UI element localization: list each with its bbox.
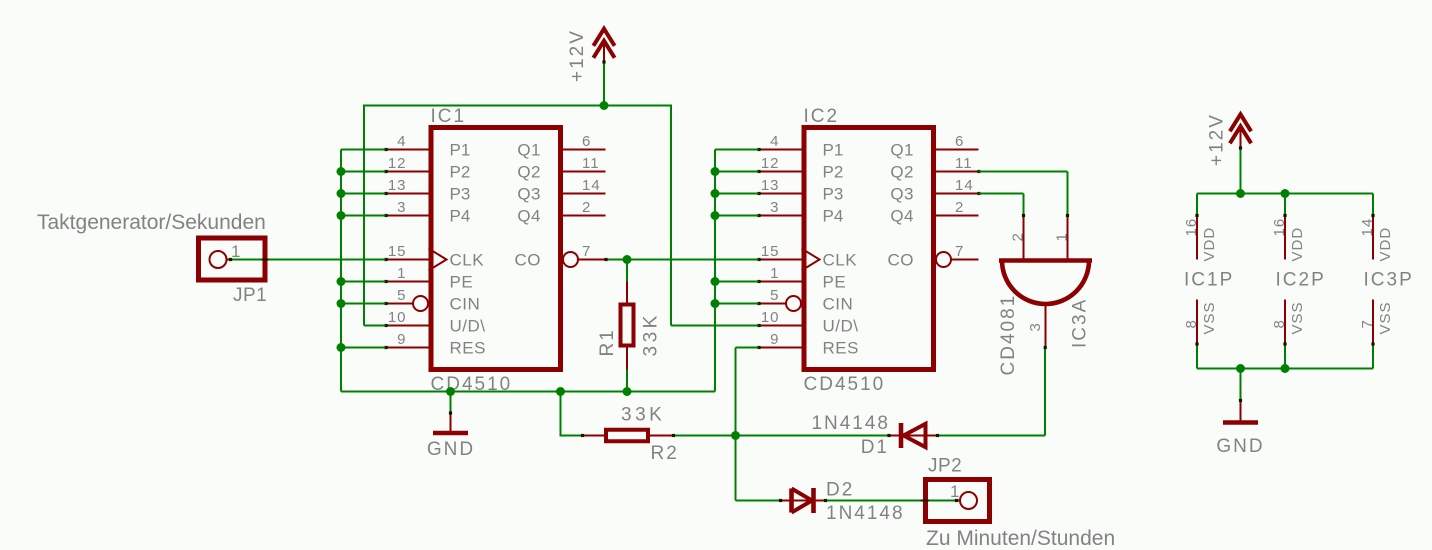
svg-text:13: 13 [761, 177, 780, 194]
svg-text:1: 1 [770, 265, 779, 282]
svg-text:P4: P4 [450, 207, 471, 226]
svg-text:U/D\: U/D\ [823, 317, 859, 336]
svg-text:6: 6 [582, 133, 591, 150]
svg-text:14: 14 [1359, 218, 1376, 237]
svg-text:8: 8 [1271, 319, 1288, 328]
svg-text:CD4510: CD4510 [804, 374, 886, 395]
svg-text:12: 12 [761, 155, 780, 172]
svg-text:10: 10 [388, 309, 407, 326]
svg-text:9: 9 [770, 331, 779, 348]
svg-text:+12V: +12V [567, 29, 588, 82]
svg-text:P4: P4 [823, 207, 844, 226]
svg-text:P1: P1 [450, 141, 471, 160]
svg-text:12: 12 [388, 155, 407, 172]
svg-text:Zu Minuten/Stunden: Zu Minuten/Stunden [926, 527, 1115, 550]
svg-text:11: 11 [955, 155, 973, 172]
svg-text:CLK: CLK [823, 251, 858, 270]
svg-text:VSS: VSS [1377, 301, 1394, 334]
svg-text:IC2: IC2 [804, 106, 840, 127]
svg-text:IC2P: IC2P [1276, 270, 1326, 291]
svg-text:P3: P3 [450, 185, 471, 204]
svg-text:Q3: Q3 [890, 185, 914, 204]
svg-text:IC1: IC1 [431, 106, 467, 127]
svg-text:15: 15 [388, 243, 407, 260]
svg-text:R1: R1 [597, 328, 618, 356]
svg-text:14: 14 [955, 177, 974, 194]
svg-text:33K: 33K [621, 405, 665, 426]
svg-text:P3: P3 [823, 185, 844, 204]
svg-text:1N4148: 1N4148 [826, 503, 905, 524]
svg-text:7: 7 [955, 243, 964, 260]
svg-text:GND: GND [1216, 436, 1264, 457]
svg-text:RES: RES [823, 339, 859, 358]
svg-text:Q4: Q4 [517, 207, 541, 226]
svg-text:Q2: Q2 [517, 163, 541, 182]
svg-text:3: 3 [770, 199, 779, 216]
svg-text:IC1P: IC1P [1184, 270, 1234, 291]
svg-text:CO: CO [888, 251, 915, 270]
svg-text:10: 10 [761, 309, 780, 326]
svg-text:14: 14 [582, 177, 601, 194]
svg-text:VDD: VDD [1289, 227, 1306, 262]
svg-text:JP1: JP1 [233, 285, 267, 306]
svg-text:P1: P1 [823, 141, 844, 160]
svg-text:CIN: CIN [823, 295, 854, 314]
svg-text:2: 2 [955, 199, 964, 216]
svg-text:CIN: CIN [450, 295, 481, 314]
svg-text:IC3A: IC3A [1070, 298, 1091, 348]
svg-text:15: 15 [761, 243, 780, 260]
svg-text:1: 1 [950, 482, 960, 501]
svg-text:CD4081: CD4081 [998, 294, 1019, 376]
svg-text:PE: PE [450, 273, 474, 292]
svg-text:Q1: Q1 [517, 141, 541, 160]
svg-text:CO: CO [515, 251, 542, 270]
svg-text:U/D\: U/D\ [450, 317, 486, 336]
svg-text:JP2: JP2 [928, 456, 962, 477]
svg-text:Q4: Q4 [890, 207, 914, 226]
svg-text:Q1: Q1 [890, 141, 914, 160]
svg-text:33K: 33K [641, 312, 662, 356]
svg-text:R2: R2 [651, 443, 679, 464]
svg-text:5: 5 [770, 287, 779, 304]
svg-text:7: 7 [582, 243, 591, 260]
svg-text:1: 1 [397, 265, 406, 282]
svg-text:3: 3 [1027, 322, 1044, 331]
svg-text:11: 11 [582, 155, 600, 172]
svg-text:CLK: CLK [450, 251, 485, 270]
svg-text:7: 7 [1359, 319, 1376, 328]
svg-text:Q2: Q2 [890, 163, 914, 182]
svg-text:VSS: VSS [1289, 301, 1306, 334]
svg-text:IC3P: IC3P [1364, 270, 1414, 291]
svg-text:4: 4 [770, 133, 779, 150]
svg-text:D2: D2 [826, 480, 854, 501]
svg-text:D1: D1 [861, 437, 889, 458]
svg-text:+12V: +12V [1207, 113, 1228, 166]
svg-text:GND: GND [427, 439, 475, 460]
svg-text:2: 2 [1010, 232, 1027, 241]
svg-text:1: 1 [1054, 232, 1071, 241]
svg-text:RES: RES [450, 339, 486, 358]
svg-text:9: 9 [397, 331, 406, 348]
svg-text:Taktgenerator/Sekunden: Taktgenerator/Sekunden [37, 211, 266, 234]
svg-text:P2: P2 [450, 163, 471, 182]
svg-text:PE: PE [823, 273, 847, 292]
svg-text:6: 6 [955, 133, 964, 150]
svg-text:VDD: VDD [1201, 227, 1218, 262]
svg-text:1N4148: 1N4148 [811, 413, 890, 434]
svg-text:16: 16 [1271, 218, 1288, 237]
svg-text:2: 2 [582, 199, 591, 216]
svg-text:1: 1 [231, 242, 241, 261]
svg-text:4: 4 [397, 133, 406, 150]
svg-text:13: 13 [388, 177, 407, 194]
svg-text:VSS: VSS [1201, 301, 1218, 334]
svg-text:Q3: Q3 [517, 185, 541, 204]
svg-text:8: 8 [1183, 319, 1200, 328]
svg-text:VDD: VDD [1377, 227, 1394, 262]
svg-text:P2: P2 [823, 163, 844, 182]
svg-text:5: 5 [397, 287, 406, 304]
svg-text:16: 16 [1183, 218, 1200, 237]
svg-text:3: 3 [397, 199, 406, 216]
